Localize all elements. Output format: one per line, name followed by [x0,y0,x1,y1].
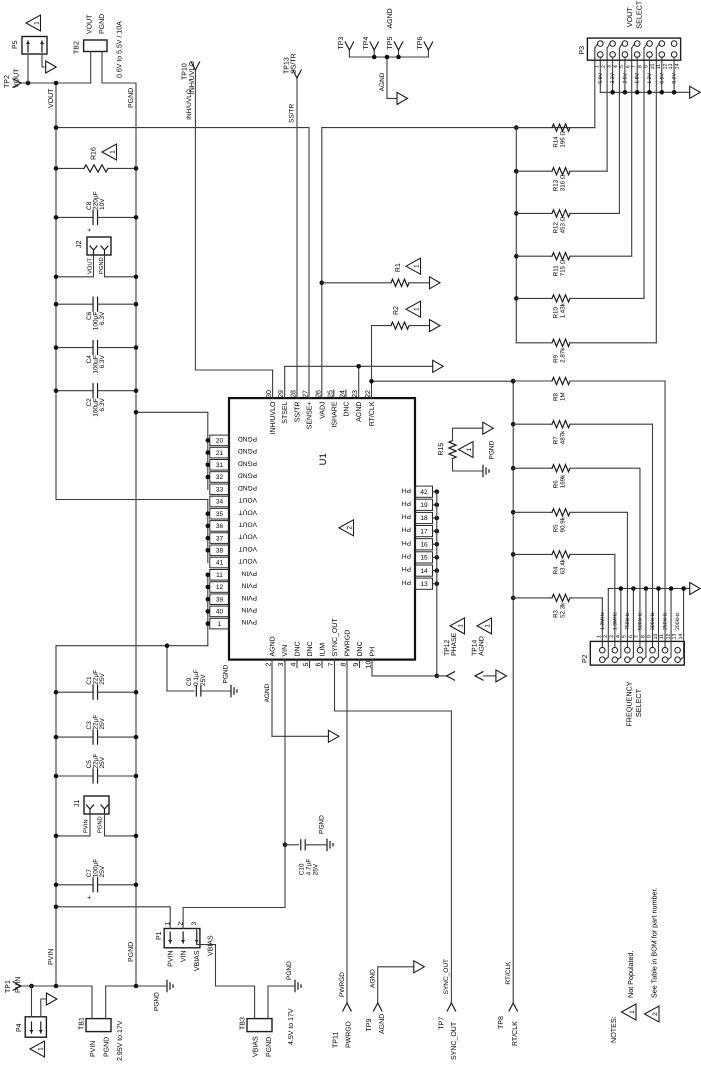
svg-text:15: 15 [420,555,428,562]
svg-text:1.0MHz: 1.0MHz [612,612,618,630]
ground flag R1 [430,277,441,289]
resistor R15 [449,441,456,459]
svg-text:PH: PH [402,513,411,520]
svg-text:TB1: TB1 [79,1017,86,1030]
svg-text:PGND: PGND [98,257,105,274]
test point TP7 [447,1003,451,1011]
wire C9 to PVIN pins [166,646,168,691]
svg-text:9: 9 [647,635,653,638]
svg-text:TP5: TP5 [387,37,394,50]
U1 pin 12 PVIN top [210,582,229,593]
ground PGND at TB1 [166,980,168,991]
svg-text:VOUT: VOUT [239,533,257,540]
wire R2 tap on RT/CLK [371,326,373,382]
jumper J2 [87,237,111,255]
wire P3 even pin row 1 [599,57,601,92]
svg-text:PGND: PGND [128,88,135,108]
svg-text:1: 1 [413,307,420,311]
wire P2 even pin row 4 [645,589,647,657]
svg-text:TP4: TP4 [363,37,370,50]
U1 pin 41 VOUT top [210,557,229,568]
resistor R6 169k [511,466,516,471]
wire R13 to P3 pin [606,48,608,171]
svg-text:10V: 10V [99,198,106,210]
svg-text:13: 13 [668,64,674,70]
wire TP2/P5/TB2 VOUT vertical [20,82,91,84]
svg-text:1: 1 [413,264,420,268]
svg-text:169k: 169k [559,474,566,488]
wire R7 to P2 pin [652,424,654,647]
svg-text:19: 19 [420,502,428,509]
svg-text:PVIN: PVIN [241,582,257,589]
wire TP3-TP6 AGND bus [349,56,428,58]
capacitor C1 [56,691,93,693]
wire PGND pin bus [207,412,209,489]
svg-text:VOUT: VOUT [48,88,55,108]
test point TP1 [13,986,21,990]
wire R14 to P3 pin [594,48,596,128]
svg-text:P4: P4 [16,1023,23,1032]
wire VADJ pin26 to divider [322,128,595,399]
svg-text:32: 32 [216,474,224,481]
svg-text:PGND: PGND [238,435,257,442]
svg-text:PGND: PGND [104,1037,111,1057]
capacitor C6 100uF [56,303,93,305]
test point TP5 [398,50,400,57]
U1 pin 19 PH bottom [415,499,433,510]
U1 pin 1 PVIN top [210,618,229,629]
svg-text:7: 7 [631,65,637,68]
wire P4 pin1 [31,986,33,1017]
svg-text:PH: PH [402,539,411,546]
P3 pins row 1 [598,41,604,47]
svg-text:PGND: PGND [223,664,230,683]
svg-text:PH: PH [402,565,411,572]
svg-text:TP10: TP10 [182,63,189,80]
ground flag P3 select [690,86,701,98]
svg-text:See Table in BOM for part numb: See Table in BOM for part number. [650,887,659,998]
svg-text:AGND: AGND [356,402,363,422]
U1 pin 39 PVIN top [210,594,229,605]
svg-text:TP13: TP13 [284,57,291,74]
P2 pins row 1 [600,647,606,653]
capacitor C7 100uF polarized [56,884,93,886]
wire P4 pin2 to flag [41,999,47,1017]
svg-text:AGND: AGND [379,72,386,91]
svg-text:NOTES:: NOTES: [609,1016,618,1043]
wire J1 pin2 PGND [105,814,137,836]
svg-text:750kHz: 750kHz [625,612,631,630]
wire J2 pin1 VOUT [56,255,94,277]
svg-text:1: 1 [37,1047,44,1051]
svg-text:RT/CLK: RT/CLK [368,401,376,426]
svg-text:3: 3 [607,65,613,68]
U1 pin 37 VOUT top [210,533,229,544]
wire TB1 pin2 PGND vertical to ground [106,985,167,987]
wire R8 to P2 pin [664,381,666,647]
svg-text:AGND: AGND [387,8,394,28]
svg-text:2: 2 [652,1012,659,1016]
svg-text:13: 13 [420,581,428,588]
svg-text:+: + [87,228,94,232]
svg-text:FREQUENCY: FREQUENCY [625,681,634,726]
svg-text:3.3V: 3.3V [610,72,616,83]
svg-text:DNC: DNC [307,641,314,656]
P2 pins row 4 [637,647,643,653]
terminal block TB2 [84,40,107,52]
wire SYNC_OUT pin7 [335,660,452,711]
svg-text:VOUT: VOUT [239,521,257,528]
svg-text:SS/TR: SS/TR [289,104,296,123]
svg-text:P2: P2 [582,654,589,663]
test point TP8 [509,1003,513,1011]
wire P3 even pin row 7 [673,57,675,92]
svg-text:TP7: TP7 [439,1017,446,1030]
svg-text:1.2MHz: 1.2MHz [600,612,606,630]
svg-text:25V: 25V [313,863,320,875]
svg-text:PGND: PGND [154,992,161,1011]
resistor R9 2.87k [516,342,552,344]
P3 pins row 3 [622,41,628,47]
ground flag TP group AGND [397,92,408,104]
svg-text:52.3k: 52.3k [559,602,566,618]
ground flag TP14 AGND [496,670,507,682]
svg-text:4.5V to 17V: 4.5V to 17V [288,1008,295,1045]
resistor R8 1M [511,379,516,384]
svg-text:INH/UVLO: INH/UVLO [186,89,193,120]
svg-text:SYNC_OUT: SYNC_OUT [443,959,450,994]
svg-text:1: 1 [457,624,464,628]
svg-text:PVIN: PVIN [84,819,90,833]
wire SS/TR from TP13 to pin28 [296,78,298,398]
wire TB2 pin2 PGND [101,52,103,84]
svg-text:P1: P1 [156,931,163,940]
P3 pins row 6 [659,41,665,47]
P2 pins row 7 [675,647,681,653]
svg-text:36: 36 [216,523,224,530]
resistor R10 1.43k [514,296,519,301]
svg-text:PH: PH [402,499,411,506]
svg-text:PH: PH [402,486,411,493]
P2 pins row 3 [625,647,631,653]
svg-text:5.0V: 5.0V [598,72,604,83]
svg-text:300kHz: 300kHz [650,612,656,630]
svg-text:9: 9 [644,65,650,68]
U1 pin 11 PVIN top [210,570,229,581]
connector P3 [587,38,680,60]
connector P1 [164,929,200,948]
ground flag AGND pin2 [328,730,339,742]
ground PGND at C9 [230,685,232,696]
svg-text:715 Ω: 715 Ω [559,259,566,276]
svg-text:0.6V: 0.6V [672,72,678,83]
svg-text:DNC: DNC [343,402,350,417]
svg-text:Not Populated.: Not Populated. [626,950,635,998]
svg-text:14: 14 [675,64,681,70]
wire P2 even pin row 6 [670,589,672,657]
wire SENSE+ pin27 to VOUT rail [56,128,309,399]
svg-text:PGND: PGND [238,484,257,491]
svg-text:STSEL: STSEL [282,401,289,423]
note triangle 1 at P4 [30,1041,45,1057]
svg-text:1: 1 [594,65,600,68]
svg-text:PGND: PGND [319,815,326,834]
svg-text:R2: R2 [393,306,400,315]
capacitor C3 [56,736,93,738]
svg-text:PH: PH [370,647,377,657]
svg-text:41: 41 [216,560,224,567]
svg-text:4.7µF: 4.7µF [306,859,313,876]
svg-text:12: 12 [216,584,224,591]
svg-text:11: 11 [659,634,665,639]
wire PH pin10 [372,660,447,676]
svg-text:AGND: AGND [270,636,277,656]
svg-text:C9: C9 [186,677,193,686]
svg-text:PGND: PGND [266,1037,273,1057]
svg-text:20: 20 [216,438,224,445]
svg-text:6.3V: 6.3V [99,398,106,412]
resistor R14 196 &#937; [516,127,552,129]
wire TB3 pin2 PGND [268,986,295,1019]
wire AGND pin2 to flag [272,660,328,737]
wire VOUT rail [55,83,57,500]
svg-text:1.2V: 1.2V [647,72,653,83]
svg-text:DNC: DNC [295,641,302,656]
P2 pins row 2 [612,647,618,653]
U1 pin 15 PH bottom [415,552,433,563]
note triangle 1 at R2 [406,301,421,317]
svg-text:PWRGD: PWRGD [345,1021,352,1048]
capacitor C8 220uF [56,216,93,218]
svg-text:R1: R1 [395,263,402,272]
P2 pins row 5 [650,647,656,653]
svg-text:PVIN: PVIN [90,1041,97,1057]
svg-text:5: 5 [619,65,625,68]
svg-text:3: 3 [609,635,615,638]
wire P2 even pin row 3 [632,589,634,657]
svg-text:0.1µF: 0.1µF [193,669,200,686]
P3 pins row 7 [671,41,677,47]
wire R12 to P3 pin [618,48,620,213]
wire P5 pin2 to flag [42,54,46,67]
svg-text:34: 34 [216,499,224,506]
wire P2 even pin row 7 [683,589,685,657]
svg-text:TP8: TP8 [498,1016,505,1029]
svg-text:39: 39 [216,596,224,603]
svg-text:AGND: AGND [478,636,485,656]
svg-text:2.95V to 17V: 2.95V to 17V [117,1020,124,1061]
note triangle 1 at TP14 [477,618,492,634]
capacitor C10 4.7uF [283,843,288,848]
svg-text:VBIAS: VBIAS [253,1036,260,1057]
ground flag STSEL/AGND [433,360,444,372]
svg-text:PGND: PGND [128,942,135,962]
svg-text:SELECT: SELECT [634,688,643,717]
U1 pin 16 PH bottom [415,539,433,550]
svg-text:TB3: TB3 [240,1017,247,1030]
resistor R1 from VADJ [320,281,325,286]
test point TP4 [373,50,375,57]
svg-text:35: 35 [216,511,224,518]
svg-text:7: 7 [634,635,640,638]
wire STSEL pin29 and AGND pin23 to flag [285,366,433,398]
svg-text:RT/CLK: RT/CLK [511,1021,519,1046]
svg-text:TP11: TP11 [333,1032,340,1048]
wire U1 pin3 VIN stub [284,660,286,661]
resistor R2 from RT/CLK [372,325,392,327]
note triangle 1 at TP12 [450,618,465,634]
connector P2 [590,641,684,665]
U1 pin 38 VOUT top [210,545,229,556]
svg-text:VOUT: VOUT [625,7,634,28]
svg-text:0.6V to 5.5V / 10A: 0.6V to 5.5V / 10A [116,21,124,78]
P3 pins row 5 [647,41,653,47]
wire P3 even pin row 6 [661,57,663,92]
svg-text:0.9V: 0.9V [659,72,665,83]
svg-text:TP6: TP6 [417,37,424,50]
svg-text:25V: 25V [99,865,106,877]
wire P1 pin3 VBIAS [197,929,255,987]
wire RT/CLK pin22 [371,381,373,398]
test point TP11 [343,1003,347,1011]
svg-text:PVIN: PVIN [48,949,55,965]
svg-text:1.43k: 1.43k [559,302,566,318]
U1 pin 14 PH bottom [415,565,433,576]
svg-text:1: 1 [484,624,491,628]
svg-text:6.3V: 6.3V [99,311,106,325]
resistor R12 453 &#937; [514,211,519,216]
svg-text:PVIN: PVIN [168,951,175,967]
U1 pin 18 PH bottom [415,512,433,523]
U1 pin 40 PVIN top [210,606,229,617]
ground flag P4 pin2 [46,993,57,1005]
wire PWRGD pin8 to TP11 [346,660,348,1003]
resistor R4 63.4k [511,552,516,557]
svg-text:38: 38 [216,548,224,555]
svg-text:VOUT: VOUT [239,545,257,552]
svg-text:VIN: VIN [282,645,289,657]
U1 pin 17 PH bottom [415,526,433,537]
svg-text:PGND: PGND [238,472,257,479]
svg-text:ILIM: ILIM [320,643,327,657]
svg-text:PGND: PGND [238,447,257,454]
wire TP1/P4/TB1 PVIN vertical [20,985,92,987]
svg-text:2.87k: 2.87k [559,347,566,363]
svg-text:VOUT: VOUT [87,257,94,274]
wire RT/CLK bus to TP8 [512,381,514,1003]
svg-text:R16: R16 [91,147,98,160]
wire PVIN pin bus [207,575,209,646]
ground PGND at C10 [326,839,328,850]
resistor R3 52.3k [511,596,516,601]
svg-text:40: 40 [216,609,224,616]
svg-text:C10: C10 [299,863,306,875]
U1 pin 36 VOUT top [210,521,229,532]
svg-text:1: 1 [109,150,116,154]
note triangle 1 at R16 [102,144,117,160]
svg-text:1M: 1M [559,392,566,401]
svg-text:PVIN: PVIN [15,977,22,993]
svg-text:AGND: AGND [379,1014,386,1034]
svg-text:17: 17 [420,528,428,535]
svg-text:25V: 25V [99,756,106,768]
wire TB2 pin1 VOUT [90,52,92,84]
svg-text:PWRGD: PWRGD [339,972,346,997]
svg-text:AGND: AGND [264,683,271,702]
note triangle 1 at P5 [26,15,41,31]
wire R9 to P3 pin [655,48,657,343]
op-amp U1 body [229,398,415,660]
svg-text:INH/UVLO: INH/UVLO [269,401,277,435]
ground PGND at TB3 [294,980,296,991]
wire P3 even pin row 3 [624,57,626,92]
test point TP10 [191,62,195,70]
svg-text:P3: P3 [579,46,586,55]
svg-text:1: 1 [218,621,222,628]
svg-text:31: 31 [216,462,224,469]
svg-text:16: 16 [420,542,428,549]
svg-text:SENSE+: SENSE+ [307,402,314,430]
svg-text:14: 14 [420,568,428,575]
svg-text:3: 3 [278,662,285,666]
wire PGND pins to PGND rail [136,411,208,413]
jumper J1 [84,796,109,814]
svg-text:VBIAS: VBIAS [194,950,201,971]
wire INH/UVLO from TP10 to pin30 [195,70,272,398]
note triangle 2 inside U1 [339,520,354,536]
svg-text:25V: 25V [99,672,106,684]
capacitor C4 100uF [56,347,93,349]
wire P5 pin1 [27,54,29,83]
svg-text:13: 13 [672,634,678,640]
P3 pins row 2 [610,41,616,47]
terminal block TB3 [247,1019,272,1032]
test point TP13 [293,70,297,78]
wire PGND rail [135,83,137,986]
svg-text:+: + [87,895,94,899]
svg-text:SS/TR: SS/TR [290,53,298,74]
test point TP6 [427,50,429,57]
wire TB1 pin1 PVIN [91,986,93,1019]
terminal block TB1 [86,1019,111,1032]
svg-text:RT/CLK: RT/CLK [505,961,512,985]
U1 pin 42 PH bottom [415,486,433,497]
svg-text:25V: 25V [200,674,207,686]
wire P2 even pin row 5 [658,589,660,657]
svg-text:TP2: TP2 [4,75,11,88]
svg-text:J1: J1 [74,800,81,808]
svg-text:63.4k: 63.4k [559,558,566,574]
wire PVIN rail to U1 PVIN pins [56,645,208,647]
svg-text:TB2: TB2 [74,41,81,54]
wire TB2 pin2 PGND vertical [102,82,136,84]
connector P5 [22,37,47,55]
svg-text:AGND: AGND [370,969,377,988]
wire VIN to U1 pin3 [284,660,286,908]
wire R11 to P3 pin [631,48,633,256]
wire R5 to P2 pin [626,512,628,647]
svg-text:33: 33 [216,487,224,494]
U1 pin 20 PGND top [210,435,229,446]
svg-text:DNC: DNC [357,641,364,656]
ground PGND at R15 [482,465,484,476]
svg-text:PVIN: PVIN [241,594,257,601]
P2 pins row 6 [662,647,668,653]
svg-text:VOUT: VOUT [14,68,21,88]
svg-text:VADJ: VADJ [319,402,326,419]
wire J2 pin2 PGND [105,255,137,277]
svg-text:U1: U1 [318,453,329,465]
